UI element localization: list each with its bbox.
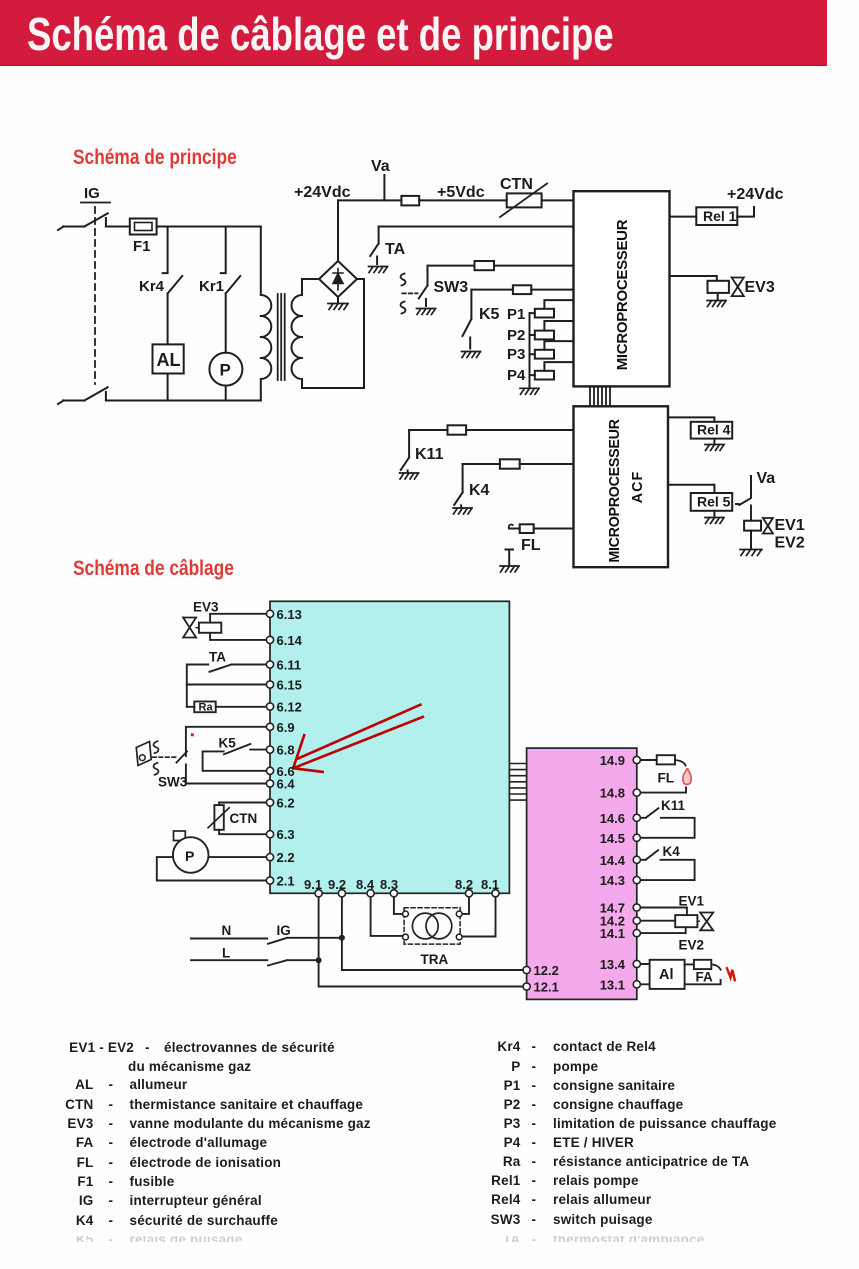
- ribbon bus X6 to X14: [509, 764, 526, 801]
- ground (TA): [369, 267, 388, 273]
- contact K11 (wiring): [640, 808, 694, 838]
- svg-text:P: P: [185, 848, 194, 864]
- pin 12.2: [523, 963, 559, 978]
- solenoid EV1/EV2 coil: [744, 521, 761, 531]
- svg-text:Va: Va: [371, 158, 390, 175]
- igniter AI box (wiring): [640, 960, 720, 989]
- wire 9.1 drop: [319, 897, 523, 987]
- wire N input: [191, 938, 267, 940]
- pump P (wiring): [157, 831, 267, 881]
- switch K11: [401, 430, 409, 472]
- ground (K5): [462, 352, 481, 358]
- svg-text:6.8: 6.8: [277, 743, 295, 758]
- contact K4 (wiring): [640, 850, 694, 880]
- pin 8.4: [356, 877, 375, 897]
- wire 14.8 electrode: [640, 788, 686, 793]
- potentiometer P1: [530, 300, 574, 317]
- svg-text:14.8: 14.8: [600, 786, 625, 801]
- label Al: [659, 967, 674, 983]
- svg-text:14.3: 14.3: [600, 873, 625, 888]
- svg-text:EV2: EV2: [679, 938, 705, 953]
- label IG: [84, 185, 100, 202]
- svg-text:P4: P4: [507, 367, 526, 384]
- solenoid EV3 coil (wiring): [199, 614, 267, 640]
- svg-text:EV2: EV2: [775, 535, 805, 552]
- junction dot 9.1/L: [316, 957, 322, 963]
- igniter AL box: [153, 344, 184, 373]
- connector block X6 (cyan): [270, 601, 509, 893]
- pump P circle: [209, 353, 242, 386]
- transformer TRA windings: [412, 913, 451, 939]
- red annotation arrows: [293, 705, 423, 772]
- svg-text:TRA: TRA: [421, 952, 449, 967]
- svg-text:6.4: 6.4: [277, 777, 296, 792]
- svg-text:K11: K11: [415, 446, 444, 463]
- potentiometer P2: [530, 321, 574, 339]
- valve EV3 body: [732, 278, 744, 297]
- svg-text:P3: P3: [507, 346, 525, 363]
- svg-text:P: P: [220, 361, 231, 380]
- op-amp U2 microprocessor ACF box: [574, 406, 669, 567]
- pin 8.3: [380, 877, 398, 897]
- wire FL rail: [509, 528, 573, 530]
- pin 13.4: [600, 957, 641, 972]
- potentiometer P3: [530, 341, 574, 358]
- svg-text:EV1: EV1: [679, 894, 705, 909]
- svg-text:6.3: 6.3: [277, 827, 295, 842]
- svg-text:8.3: 8.3: [380, 877, 398, 892]
- label +24Vdc: [294, 184, 351, 201]
- pin 14.9: [600, 753, 641, 768]
- pin 8.2: [455, 877, 473, 897]
- pin 14.8: [600, 786, 641, 801]
- contact Kr4: [168, 276, 183, 344]
- wire TA rail: [379, 226, 574, 228]
- ground (Rel5): [705, 518, 724, 524]
- label TRA: [421, 952, 449, 967]
- label EV1 (wiring): [679, 894, 705, 909]
- svg-text:Kr4: Kr4: [139, 278, 165, 295]
- pin 14.5: [600, 831, 641, 846]
- label K4: [469, 482, 490, 499]
- label FL (wiring): [658, 771, 675, 786]
- connector block X14 (magenta): [527, 748, 637, 999]
- svg-text:6.2: 6.2: [277, 796, 295, 811]
- svg-text:MICROPROCESSEUR: MICROPROCESSEUR: [607, 418, 623, 562]
- label K5: [479, 306, 500, 323]
- svg-text:EV1: EV1: [775, 517, 805, 534]
- label IG (wiring): [277, 923, 291, 938]
- pin 14.4: [600, 853, 641, 868]
- pin 6.3: [266, 827, 294, 842]
- red title banner: [0, 0, 827, 66]
- label K5 (wiring): [219, 736, 237, 751]
- transformer TRA dashed enclosure: [404, 908, 460, 944]
- relay coil K5 (wiring): [203, 744, 267, 771]
- ground (K11): [400, 473, 419, 479]
- wire potentiometer common: [529, 313, 531, 388]
- ground (SW3): [417, 309, 436, 315]
- svg-text:Rel 4: Rel 4: [697, 422, 731, 438]
- svg-text:P2: P2: [507, 327, 525, 344]
- label CTN (wiring): [230, 811, 258, 826]
- svg-text:Kr1: Kr1: [199, 278, 224, 295]
- resistor FA: [694, 960, 721, 970]
- svg-text:AL: AL: [157, 350, 181, 370]
- op-amp U1 microprocessor box: [574, 191, 670, 386]
- wire 8.1 drop: [462, 897, 496, 937]
- label K11 (wiring): [661, 798, 686, 813]
- svg-text:CTN: CTN: [230, 811, 258, 826]
- pin 6.12: [266, 700, 301, 715]
- svg-text:EV3: EV3: [193, 600, 219, 615]
- ground (EV3): [707, 301, 726, 307]
- label P: [220, 361, 231, 380]
- label Kr1: [199, 278, 224, 295]
- resistor (K5 input): [513, 285, 531, 294]
- wire 9.2 drop: [342, 897, 523, 970]
- label SW3: [434, 279, 469, 296]
- fuse F1: [130, 219, 157, 235]
- pin 2.1: [266, 874, 294, 889]
- label Kr4: [139, 278, 165, 295]
- wire bridge to +24Vdc rail: [337, 200, 339, 261]
- svg-text:FL: FL: [658, 771, 675, 786]
- section title: Schéma de principe: [73, 145, 237, 170]
- EV valve-coil link (wiring): [697, 920, 700, 922]
- ground (K4): [453, 508, 472, 514]
- svg-text:K11: K11: [661, 798, 686, 813]
- label P3: [507, 346, 525, 363]
- svg-text:Rel 5: Rel 5: [697, 494, 731, 510]
- wire top rail L-phase: [58, 227, 261, 231]
- wire K5 rail: [471, 289, 573, 291]
- red annotation dot: [191, 733, 194, 736]
- resistor (SW3 input): [475, 261, 495, 270]
- svg-text:+5Vdc: +5Vdc: [437, 184, 485, 201]
- svg-text:EV3: EV3: [745, 279, 775, 296]
- svg-text:6.9: 6.9: [277, 720, 295, 735]
- switch L pole: [268, 960, 319, 965]
- label Rel 4: [697, 422, 731, 438]
- svg-text:K4: K4: [469, 482, 490, 499]
- label EV1: [775, 517, 805, 534]
- ground (bridge): [328, 304, 348, 310]
- svg-text:6.13: 6.13: [277, 607, 302, 622]
- switch IG (upper pole): [84, 213, 107, 226]
- switch K5: [463, 290, 472, 349]
- pin 9.1: [304, 877, 322, 897]
- wire EV coil to ground: [750, 531, 752, 549]
- pin 6.11: [266, 658, 301, 673]
- label CTN: [500, 176, 533, 193]
- resistor Ra: [187, 702, 267, 713]
- valve EV3 body (wiring): [183, 618, 196, 638]
- svg-text:ACF: ACF: [630, 471, 646, 503]
- svg-text:14.1: 14.1: [600, 926, 625, 941]
- svg-text:K4: K4: [663, 844, 681, 859]
- svg-text:12.1: 12.1: [534, 980, 559, 995]
- label EV2 (wiring): [679, 938, 705, 953]
- transformer T core: [278, 294, 285, 380]
- ground (Rel4): [705, 445, 724, 451]
- svg-text:13.1: 13.1: [600, 977, 625, 992]
- wire K11 rail: [409, 429, 573, 431]
- switch IG (wiring): [268, 938, 342, 944]
- resistor FL (wiring): [640, 755, 685, 765]
- switch TA: [370, 227, 378, 265]
- svg-text:Rel 1: Rel 1: [703, 208, 737, 224]
- spark gap symbol: [727, 968, 735, 980]
- connector pins: [266, 607, 640, 995]
- ground (potentiometers): [520, 388, 539, 394]
- IG label underline: [81, 202, 110, 204]
- switch Rel5 contact: [736, 498, 751, 521]
- svg-text:8.4: 8.4: [356, 877, 375, 892]
- resistor (K11 input): [448, 425, 467, 434]
- label EV3 (wiring): [193, 600, 219, 615]
- bus U1 to U2: [590, 386, 610, 406]
- SW3 membrane braces (wiring): [154, 741, 159, 775]
- label Rel 5: [697, 494, 731, 510]
- wire bridge to ground: [337, 297, 339, 303]
- wire P to bottom rail: [225, 386, 227, 401]
- resistor R (5V supply): [401, 196, 419, 206]
- svg-text:8.2: 8.2: [455, 877, 473, 892]
- svg-text:F1: F1: [133, 238, 151, 255]
- label F1: [133, 238, 151, 255]
- pin 14.6: [600, 811, 641, 826]
- svg-text:9.2: 9.2: [328, 877, 346, 892]
- label EV3: [745, 279, 775, 296]
- svg-text:IG: IG: [277, 923, 291, 938]
- svg-text:+24Vdc: +24Vdc: [727, 186, 784, 203]
- SW3 dashed actuator link (wiring): [153, 756, 177, 758]
- svg-text:SW3: SW3: [434, 279, 469, 296]
- label TA: [385, 241, 406, 258]
- switch K4: [454, 464, 462, 507]
- thermistor CTN: [500, 184, 547, 218]
- wire Va to switch: [750, 476, 752, 497]
- wire +24Vdc rail: [338, 199, 574, 201]
- solenoid EV1/EV2 coil (wiring): [640, 908, 697, 934]
- SW3 paddle symbol: [136, 742, 151, 766]
- svg-text:+24Vdc: +24Vdc: [294, 184, 351, 201]
- label FL (ACF): [521, 537, 541, 554]
- pin 2.2: [266, 850, 294, 865]
- wire Kr4 branch upper: [163, 227, 168, 274]
- node Va stub: [383, 175, 385, 200]
- svg-text:6.15: 6.15: [277, 678, 302, 693]
- thermistor CTN (wiring): [208, 803, 266, 835]
- relay Rel5: [668, 485, 732, 517]
- svg-text:Al: Al: [659, 967, 674, 983]
- label K4 (wiring): [663, 844, 681, 859]
- pin 12.1: [523, 980, 559, 995]
- pin 14.1: [600, 926, 641, 941]
- wire K4 rail: [463, 463, 574, 465]
- wire 8.2 drop: [462, 897, 469, 914]
- pin 14.3: [600, 873, 641, 888]
- wire L input: [191, 959, 267, 961]
- wire AL to bottom rail: [167, 374, 169, 401]
- bridge rectifier diamond: [319, 261, 357, 297]
- label EV2: [775, 535, 805, 552]
- label P4: [507, 367, 526, 384]
- ground (burner): [500, 566, 519, 572]
- svg-text:TA: TA: [209, 650, 226, 665]
- svg-text:Va: Va: [757, 470, 776, 487]
- wire 6.15: [187, 684, 267, 686]
- svg-text:14.5: 14.5: [600, 831, 625, 846]
- svg-text:Ra: Ra: [199, 702, 214, 714]
- burner ground bar: [506, 550, 514, 566]
- transformer T secondary winding: [292, 279, 303, 388]
- relay Rel1: [670, 207, 755, 225]
- svg-text:6.12: 6.12: [277, 700, 302, 715]
- svg-text:N: N: [222, 923, 232, 938]
- label +24Vdc (Rel1): [727, 186, 784, 203]
- relay Rel4: [668, 417, 732, 444]
- svg-text:8.1: 8.1: [481, 877, 499, 892]
- wire secondary loop: [302, 279, 364, 388]
- svg-text:FA: FA: [696, 970, 714, 985]
- pin 9.2: [328, 877, 346, 897]
- label MICROPROCESSEUR: [614, 219, 631, 370]
- switch TA (wiring): [187, 665, 267, 707]
- pin 14.2: [600, 914, 641, 929]
- svg-text:2.2: 2.2: [277, 850, 295, 865]
- svg-text:13.4: 13.4: [600, 957, 626, 972]
- label Va (EV1 supply): [757, 470, 776, 487]
- ground (EV1/EV2): [740, 550, 762, 556]
- label L: [222, 946, 230, 961]
- label MICROPROCESSEUR ACF: [607, 418, 646, 562]
- diode inside bridge: [333, 269, 343, 291]
- resistor (K4 input): [500, 459, 520, 468]
- pin 8.1: [481, 877, 499, 897]
- label AL: [157, 350, 181, 370]
- wire bottom rail N-phase: [58, 401, 261, 405]
- svg-text:K5: K5: [219, 736, 237, 751]
- FL electrode tip: [509, 525, 513, 529]
- pin 6.2: [266, 796, 294, 811]
- svg-text:TA: TA: [385, 241, 406, 258]
- label P (wiring): [185, 848, 194, 864]
- pin 6.8: [266, 743, 294, 758]
- solenoid EV3 coil: [670, 276, 729, 300]
- valve EV1/EV2 body: [763, 518, 773, 534]
- pin 6.13: [266, 607, 301, 622]
- wire 8.4 drop: [371, 897, 403, 936]
- svg-text:6.11: 6.11: [277, 658, 302, 673]
- pin 6.6: [266, 764, 294, 779]
- svg-text:P1: P1: [507, 306, 525, 323]
- switch SW3: [419, 266, 428, 306]
- svg-text:IG: IG: [84, 185, 100, 202]
- node TRA terminals: [403, 911, 463, 940]
- transformer T primary winding: [261, 227, 272, 401]
- contact Kr1: [226, 276, 241, 353]
- label N: [222, 923, 232, 938]
- pin 6.4: [266, 777, 295, 792]
- svg-text:CTN: CTN: [500, 176, 533, 193]
- wire 8.3 drop: [394, 897, 403, 914]
- flame symbol: [683, 769, 691, 785]
- label K11: [415, 446, 444, 463]
- pin 14.7: [600, 901, 641, 916]
- EV3 valve-coil link: [196, 627, 199, 629]
- potentiometer P4: [530, 362, 574, 379]
- svg-text:12.2: 12.2: [534, 963, 559, 978]
- SW3 dashed actuator link: [402, 292, 417, 294]
- valve EV1/EV2 body (wiring): [700, 913, 713, 931]
- junction dot 9.2/IG: [339, 935, 345, 941]
- switch IG (lower pole): [84, 387, 107, 400]
- resistor (FL input): [520, 524, 534, 533]
- svg-text:FL: FL: [521, 537, 541, 554]
- label P1: [507, 306, 525, 323]
- wire Kr1 branch upper: [221, 227, 226, 274]
- svg-text:9.1: 9.1: [304, 877, 322, 892]
- pin 6.15: [266, 678, 301, 693]
- SW3 membrane braces: [401, 274, 406, 314]
- label +5Vdc: [437, 184, 485, 201]
- legend: [0, 0, 859, 1]
- wire SW3 rail: [428, 265, 574, 267]
- IG mechanical link (dashed): [94, 207, 96, 384]
- pin 6.9: [266, 720, 294, 735]
- svg-text:SW3: SW3: [158, 775, 188, 790]
- switch SW3 flow (wiring): [177, 727, 267, 784]
- svg-text:MICROPROCESSEUR: MICROPROCESSEUR: [614, 219, 631, 370]
- svg-text:14.6: 14.6: [600, 811, 625, 826]
- label SW3 (wiring): [158, 775, 188, 790]
- svg-text:2.1: 2.1: [277, 874, 295, 889]
- svg-text:K5: K5: [479, 306, 500, 323]
- svg-text:L: L: [222, 946, 230, 961]
- label Rel 1: [703, 208, 737, 224]
- section title: Schéma de câblage: [73, 556, 234, 581]
- label TA (wiring): [209, 650, 226, 665]
- label Ra: [199, 702, 214, 714]
- svg-text:6.14: 6.14: [277, 633, 303, 648]
- svg-text:14.4: 14.4: [600, 853, 626, 868]
- label Va: [371, 158, 390, 175]
- label FA: [696, 970, 714, 985]
- svg-text:14.9: 14.9: [600, 753, 625, 768]
- pin 13.1: [600, 977, 641, 992]
- pin 6.14: [266, 633, 302, 648]
- label P2: [507, 327, 525, 344]
